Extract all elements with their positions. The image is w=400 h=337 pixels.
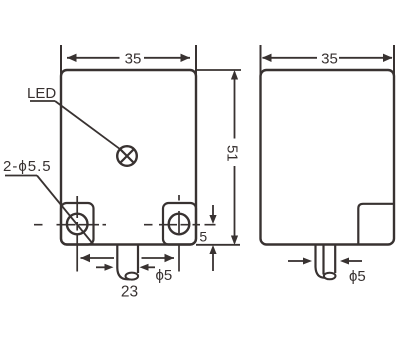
svg-text:2-ϕ5.5: 2-ϕ5.5	[3, 158, 52, 175]
svg-text:51: 51	[224, 145, 241, 162]
svg-text:5: 5	[199, 229, 207, 245]
svg-text:35: 35	[125, 51, 142, 68]
svg-text:ϕ5: ϕ5	[349, 268, 366, 285]
svg-text:LED: LED	[27, 85, 56, 102]
svg-text:23: 23	[121, 284, 138, 301]
svg-text:35: 35	[321, 51, 338, 68]
svg-text:ϕ5: ϕ5	[156, 267, 173, 284]
